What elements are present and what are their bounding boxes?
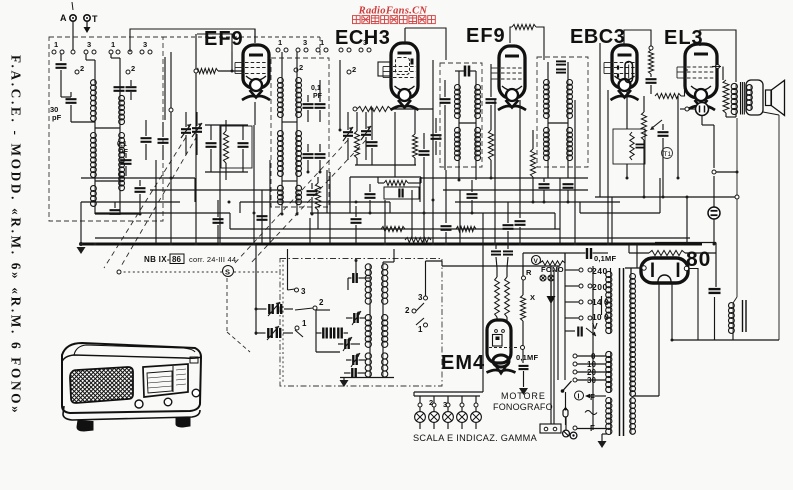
tap terminal [588, 268, 592, 272]
capacitor [636, 144, 645, 147]
junction [490, 177, 493, 180]
resistor [384, 180, 408, 185]
terminal 2 [347, 70, 351, 74]
padder capacitor 3 [338, 328, 341, 339]
capacitor [303, 154, 314, 158]
svg-text:3: 3 [443, 400, 447, 409]
wire [506, 317, 508, 321]
svg-text:2: 2 [131, 64, 135, 73]
coil L2 bottom section [119, 172, 121, 190]
capacitor [213, 219, 224, 223]
wire [94, 60, 96, 83]
junction [677, 177, 680, 180]
resistor [354, 131, 359, 158]
wire [565, 392, 567, 409]
wire [461, 407, 463, 412]
wire bus [240, 201, 390, 203]
terminal [60, 50, 64, 54]
filter choke [732, 303, 734, 333]
wire [360, 317, 367, 319]
wire HV top to plate [625, 267, 642, 269]
resistor top right [649, 250, 685, 255]
wire [507, 243, 509, 249]
antenna lead top mark [72, 2, 73, 10]
wire [94, 121, 96, 133]
wire [355, 272, 357, 274]
wire [629, 252, 649, 254]
wire exit [441, 261, 443, 266]
coil IF1 b3 [296, 186, 298, 204]
coil L1 mid section [94, 133, 96, 177]
label wave [585, 411, 597, 415]
resistor on bus [405, 237, 431, 242]
wire [522, 321, 524, 363]
wire [347, 112, 349, 130]
wire [217, 200, 219, 217]
wire [470, 70, 476, 72]
tap terminal [579, 300, 583, 304]
svg-text:3: 3 [418, 293, 423, 302]
wire [162, 122, 164, 137]
capacitor 0,1 [121, 160, 132, 164]
terminal circle T [84, 15, 90, 21]
wire [680, 108, 695, 110]
speaker motor [746, 80, 763, 115]
svg-text:2: 2 [429, 398, 433, 407]
wire [185, 135, 187, 155]
capacitor [303, 104, 314, 108]
trimmer capacitor pair b2 [277, 328, 280, 338]
dash-dot gang line [234, 271, 280, 273]
wire [433, 407, 435, 412]
mains switch lever [563, 381, 572, 391]
wire [532, 177, 534, 202]
capacitor [503, 225, 514, 229]
resistor screen [648, 50, 653, 74]
cabinet top edge [62, 355, 201, 362]
padder capacitor 1 [323, 328, 326, 339]
wire vertical [384, 200, 386, 244]
osc coil row2 right [382, 315, 384, 347]
terminal EM4 grid [521, 346, 525, 350]
dial lamp 4 [457, 412, 468, 423]
trimmer capacitor gang 1 [181, 129, 191, 133]
wire [712, 66, 721, 68]
junction [170, 243, 173, 246]
trimmer capacitor osc3 [345, 339, 348, 349]
capacitor [351, 219, 362, 223]
cabinet knob 1 [135, 400, 143, 408]
wire vertical [494, 100, 496, 243]
wire tap rail [564, 253, 566, 380]
capacitor osc bottom [352, 368, 355, 378]
transformer primary winding b [610, 352, 612, 392]
wire [355, 164, 416, 166]
wire [543, 178, 545, 182]
wire [495, 243, 497, 249]
svg-text:ECH3: ECH3 [335, 27, 390, 49]
junction [255, 308, 258, 311]
wire vertical [195, 34, 197, 244]
ground transformer [598, 441, 607, 448]
wire [256, 308, 267, 310]
junction [228, 201, 231, 204]
plate terminal right [684, 266, 688, 270]
component box [613, 129, 645, 164]
wire box bottom [340, 377, 394, 379]
junction [219, 243, 222, 246]
resistor [412, 134, 417, 158]
svg-text:3: 3 [87, 40, 91, 49]
svg-text:1: 1 [418, 325, 423, 334]
junction [532, 201, 535, 204]
svg-text:corr. 24-III 44: corr. 24-III 44 [189, 255, 236, 264]
junction [355, 259, 358, 262]
wire [701, 116, 703, 125]
wire bus [95, 212, 230, 214]
dashed S diag [227, 332, 250, 352]
wire [447, 396, 449, 403]
wire [626, 90, 628, 129]
trimmer capacitor gang 2b [361, 131, 371, 135]
dashed box oscillator coils [271, 58, 329, 207]
coil IF3 b1 [567, 80, 569, 118]
svg-text:X: X [530, 293, 535, 302]
wire bus [81, 177, 195, 179]
ground arrow box [340, 380, 349, 387]
wire vertical [231, 52, 233, 71]
capacitor IF2 left [440, 99, 451, 103]
terminal [367, 48, 371, 52]
wire [408, 182, 421, 184]
wire [319, 160, 321, 172]
wire [686, 197, 688, 244]
wire vertical [432, 60, 434, 244]
wire [343, 378, 345, 381]
svg-text:R: R [526, 268, 532, 277]
terminal [52, 50, 56, 54]
wire vertical [574, 100, 576, 243]
wire mains [550, 297, 552, 424]
dashed gang link [234, 140, 348, 264]
wire vertical [482, 213, 484, 258]
osc coil row2 left [369, 315, 371, 347]
capacitor 0,1MF b [503, 251, 513, 254]
capacitor [556, 61, 566, 64]
resistor band [456, 226, 476, 231]
wire [369, 184, 371, 192]
wire thin bus ext [655, 242, 716, 244]
terminal [148, 50, 152, 54]
wire [346, 317, 353, 319]
wire [602, 433, 607, 435]
svg-text:NB IX-: NB IX- [144, 255, 170, 264]
svg-text:PF: PF [119, 149, 129, 156]
junction [307, 171, 310, 174]
wire vertical [713, 176, 715, 207]
wire [139, 194, 141, 214]
wire vertical [329, 172, 331, 243]
junction [507, 243, 510, 246]
wire [536, 27, 544, 60]
wire [565, 417, 567, 425]
S circled switch [223, 266, 234, 277]
radio cabinet body [62, 343, 201, 413]
junction [319, 171, 322, 174]
junction [471, 212, 474, 215]
wire vertical [411, 190, 413, 238]
wire [217, 225, 219, 243]
wire [281, 117, 283, 131]
junction [255, 332, 258, 335]
wire [733, 297, 737, 303]
capacitor [307, 191, 318, 195]
capacitor antenna series [56, 64, 67, 68]
output transformer winding [735, 84, 737, 114]
coil L1 top section [94, 80, 96, 121]
wire [735, 114, 737, 117]
wire [567, 190, 569, 202]
svg-text:SCALA E INDICAZ. GAMMA: SCALA E INDICAZ. GAMMA [413, 433, 538, 443]
wire vertical [445, 170, 447, 223]
wire [296, 52, 298, 78]
wire [435, 141, 437, 155]
wire [369, 347, 371, 353]
terminal [359, 48, 363, 52]
padder capacitor 2 [331, 328, 334, 339]
label T1 circled [662, 148, 673, 159]
coil IF3 a2 [547, 128, 549, 160]
switch wiper [416, 318, 424, 325]
wire [433, 396, 435, 403]
wire EL3 plate loop [700, 30, 736, 82]
gang line terminal [117, 270, 121, 274]
svg-text:EM4: EM4 [441, 352, 485, 374]
wire [296, 117, 298, 131]
terminal [339, 48, 343, 52]
wire [283, 332, 293, 334]
junction [458, 179, 461, 182]
svg-text:F.A.C.E. - MODD. «R.M. 6» «R.M: F.A.C.E. - MODD. «R.M. 6» «R.M. 6 FONO» [9, 55, 24, 415]
watermark CJK text [353, 16, 361, 24]
wire [461, 422, 463, 429]
tube EL3 V5 [685, 44, 717, 98]
coil IF1 a3 [281, 186, 283, 204]
wire vertical [155, 160, 157, 243]
wire jog [419, 178, 421, 202]
junction [231, 70, 234, 73]
trimmer capacitor pair b1 [268, 328, 271, 338]
wire jog [194, 178, 196, 202]
wire [715, 243, 717, 288]
capacitor [315, 104, 326, 108]
wire [565, 417, 567, 430]
svg-text:EL3: EL3 [664, 27, 704, 49]
tap terminal LT [573, 370, 577, 374]
switch contact 3r [424, 296, 428, 300]
coil IF1 a2 [281, 131, 283, 176]
wire vertical [269, 160, 271, 243]
svg-text:1: 1 [320, 38, 324, 47]
wire [196, 134, 198, 155]
wire [444, 80, 446, 97]
switch contact 3 [295, 288, 299, 292]
wire [445, 232, 447, 243]
wire [365, 112, 367, 129]
junction [384, 243, 387, 246]
wire [316, 332, 322, 334]
wire [162, 145, 164, 160]
wire filament left [658, 282, 660, 396]
wire [344, 372, 351, 374]
wire [593, 252, 609, 254]
wire speaker rail [778, 115, 780, 340]
wire tap [577, 371, 606, 373]
wire [196, 112, 198, 126]
junction [119, 243, 122, 246]
wire vertical [253, 125, 255, 244]
transformer HV secondary [630, 274, 632, 396]
junction [195, 243, 198, 246]
wire [565, 330, 575, 332]
capacitor [135, 188, 146, 192]
wire tap [577, 363, 606, 365]
wire [564, 253, 566, 263]
wire [369, 304, 371, 315]
capacitor tone [658, 132, 669, 136]
tap terminal [579, 268, 583, 272]
wire [284, 308, 293, 310]
lamp terminal [460, 403, 464, 407]
tap terminal [588, 284, 592, 288]
wire [382, 304, 384, 315]
lamp terminal [474, 403, 478, 407]
svg-text:3: 3 [301, 287, 306, 296]
coil L1 bottom section [94, 186, 96, 206]
capacitor [110, 210, 121, 214]
lamp terminal [432, 403, 436, 407]
wire [547, 160, 549, 178]
wire [475, 407, 477, 412]
wire vertical [626, 164, 628, 178]
potentiometer arrow [652, 120, 662, 128]
wire [358, 372, 367, 374]
capacitor [539, 184, 550, 188]
resistor grid EF9 [196, 68, 218, 73]
tube EF9 V1 [243, 45, 269, 88]
svg-text:3: 3 [143, 40, 147, 49]
trimmer capacitor gang 2 [343, 132, 353, 136]
osc coil row3 left [369, 353, 371, 377]
svg-text:S: S [225, 268, 230, 277]
capacitor [367, 142, 378, 146]
capacitor [206, 143, 217, 147]
wire [317, 210, 319, 229]
svg-text:1: 1 [278, 38, 282, 47]
wire [714, 297, 716, 340]
trimmer capacitor pair a1 [269, 304, 272, 314]
dial lamp 1 [415, 412, 426, 423]
switch contact 1 [295, 326, 299, 330]
svg-text:0,1: 0,1 [311, 85, 321, 92]
svg-text:1: 1 [302, 319, 307, 328]
wire [662, 124, 664, 130]
wire [496, 268, 498, 277]
coil L2 top section [119, 96, 121, 124]
fono contact a [540, 275, 546, 281]
terminal [347, 48, 351, 52]
wire [281, 176, 283, 186]
wire [447, 422, 449, 429]
resistor volume pot [641, 112, 646, 140]
junction [432, 199, 435, 202]
fuse [563, 409, 568, 417]
wire [145, 144, 147, 160]
wire [61, 96, 71, 98]
wire [225, 120, 227, 131]
wire [590, 395, 606, 397]
dash-dot gang inside box [282, 260, 284, 384]
wire [225, 163, 227, 180]
boxed 86 [170, 254, 184, 264]
wire [722, 67, 724, 81]
wire tap [577, 355, 606, 357]
junction [432, 243, 435, 246]
svg-text:pF: pF [52, 113, 62, 122]
resistor [630, 132, 634, 160]
wire [365, 137, 367, 160]
lamp terminal [446, 403, 450, 407]
coil IF2 b2 [475, 128, 477, 160]
wire [413, 392, 415, 396]
wire [458, 71, 460, 85]
wire vertical [459, 190, 461, 243]
wire [389, 261, 391, 263]
svg-text:0,1: 0,1 [117, 141, 127, 148]
wire left rail [255, 244, 257, 335]
tap terminal [588, 316, 592, 320]
wire vertical right rail [736, 118, 738, 297]
dashed box IF transformer 3 [537, 57, 588, 167]
terminal [284, 48, 288, 52]
terminal cathode line [685, 107, 689, 111]
capacitor 0,1MF a [491, 251, 501, 254]
wire [506, 268, 508, 277]
fono contact b [548, 275, 554, 281]
wire [218, 70, 243, 72]
osc coil row1 left [369, 264, 371, 304]
osc coil row1 right [382, 264, 384, 304]
wire [423, 133, 425, 149]
terminal AVC [649, 46, 653, 50]
terminal [296, 48, 300, 52]
wire [119, 177, 121, 185]
resistor coupling [655, 93, 681, 98]
ground arrow motor [519, 388, 528, 395]
wire tube top [254, 29, 256, 43]
resistor-style primary winding [723, 80, 729, 113]
wire vertical [394, 112, 396, 177]
wire [359, 359, 367, 361]
wire transformer bottom [726, 116, 736, 118]
trimmer arrow [351, 353, 360, 367]
wire coil link [95, 127, 120, 129]
wire [319, 110, 321, 122]
wire [346, 359, 352, 361]
capacitor IF2 right [486, 99, 497, 103]
wire [316, 351, 340, 353]
tube EM4 magic eye [487, 320, 511, 363]
